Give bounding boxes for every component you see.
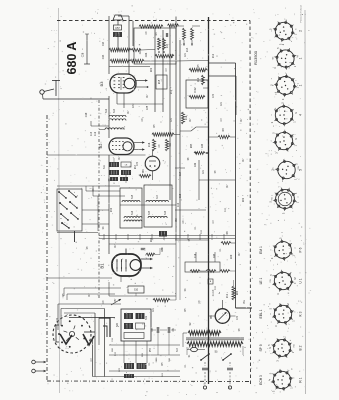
svg-text:R22: R22 xyxy=(151,67,153,72)
svg-text:B1: B1 xyxy=(100,263,105,269)
svg-text:1v: 1v xyxy=(219,291,221,294)
svg-text:C21: C21 xyxy=(221,101,223,106)
svg-text:C6: C6 xyxy=(183,220,185,224)
svg-text:R23: R23 xyxy=(237,290,239,295)
svg-text:a: a xyxy=(273,125,275,127)
svg-text:k: k xyxy=(272,167,274,169)
svg-text:765: 765 xyxy=(271,196,273,200)
svg-text:C30: C30 xyxy=(162,247,164,252)
svg-text:R19: R19 xyxy=(142,352,144,357)
svg-text:7: 7 xyxy=(284,72,288,74)
svg-text:C16: C16 xyxy=(180,193,182,198)
svg-text:s: s xyxy=(271,77,273,79)
svg-text:S19: S19 xyxy=(146,315,148,320)
svg-text:C21: C21 xyxy=(185,52,187,57)
svg-text:C3: C3 xyxy=(213,220,215,224)
svg-text:P57: P57 xyxy=(150,347,152,352)
svg-text:ECH 3: ECH 3 xyxy=(259,375,263,385)
svg-text:f: f xyxy=(271,140,273,141)
svg-text:1: 1 xyxy=(293,144,297,146)
svg-text:~: ~ xyxy=(216,391,218,395)
svg-text:3: 3 xyxy=(282,212,286,214)
svg-text:5: 5 xyxy=(268,28,272,30)
svg-text:C12: C12 xyxy=(95,131,97,136)
svg-text:C22: C22 xyxy=(112,337,114,342)
svg-text:1g: 1g xyxy=(269,378,271,381)
svg-text:LE 1: LE 1 xyxy=(259,277,263,284)
svg-text:C3: C3 xyxy=(166,68,168,72)
svg-text:R5: R5 xyxy=(154,124,156,128)
svg-text:1: 1 xyxy=(293,178,297,180)
svg-text:LS: LS xyxy=(125,165,128,167)
svg-text:5: 5 xyxy=(276,47,280,49)
svg-text:3: 3 xyxy=(276,293,280,295)
svg-text:s: s xyxy=(271,30,273,31)
svg-text:R7: R7 xyxy=(241,118,243,122)
svg-text:500: 500 xyxy=(169,357,171,361)
svg-text:600: 600 xyxy=(112,347,114,351)
svg-text:EM 1: EM 1 xyxy=(259,246,263,254)
svg-text:R15: R15 xyxy=(159,79,161,84)
svg-text:R5: R5 xyxy=(185,308,187,312)
svg-text:R4: R4 xyxy=(155,32,158,36)
svg-text:S12: S12 xyxy=(106,108,108,113)
svg-text:s: s xyxy=(271,114,273,115)
svg-text:C1: C1 xyxy=(195,226,197,230)
svg-text:a: a xyxy=(294,247,296,249)
svg-text:S13: S13 xyxy=(114,108,116,113)
svg-text:C21: C21 xyxy=(171,117,173,122)
svg-text:3: 3 xyxy=(274,325,278,327)
svg-text:R5: R5 xyxy=(198,64,200,68)
svg-text:1: 1 xyxy=(271,352,273,354)
svg-text:S18: S18 xyxy=(132,194,134,199)
svg-text:S17: S17 xyxy=(157,194,159,199)
svg-text:f: f xyxy=(294,377,296,378)
svg-text:R7: R7 xyxy=(239,252,241,256)
svg-text:3: 3 xyxy=(281,98,285,100)
svg-text:R9: R9 xyxy=(222,128,225,132)
svg-text:s: s xyxy=(277,370,279,372)
svg-text:f: f xyxy=(295,311,297,312)
svg-text:k: k xyxy=(275,91,277,93)
svg-text:C28: C28 xyxy=(82,52,85,57)
svg-text:SP 9: SP 9 xyxy=(259,344,263,351)
svg-text:R7: R7 xyxy=(119,156,121,160)
svg-text:3: 3 xyxy=(272,390,276,392)
svg-text:C30: C30 xyxy=(57,317,59,322)
svg-text:S4: S4 xyxy=(103,226,105,230)
svg-text:C57: C57 xyxy=(115,27,120,30)
svg-text:S4: S4 xyxy=(185,288,187,292)
svg-text:3: 3 xyxy=(270,121,274,123)
svg-text:C21: C21 xyxy=(153,307,155,312)
svg-text:B9: B9 xyxy=(209,315,213,319)
svg-text:C13: C13 xyxy=(91,131,93,136)
svg-text:C30: C30 xyxy=(137,161,139,166)
svg-text:5: 5 xyxy=(268,372,272,374)
svg-text:R7: R7 xyxy=(89,293,91,297)
svg-text:S8: S8 xyxy=(239,328,241,332)
svg-text:C6: C6 xyxy=(103,300,105,304)
svg-text:a: a xyxy=(291,40,293,42)
svg-text:U 1: U 1 xyxy=(299,278,303,283)
svg-text:2: 2 xyxy=(281,43,285,45)
svg-text:R5: R5 xyxy=(162,362,164,366)
svg-text:Printed in Holland: Printed in Holland xyxy=(300,5,303,23)
svg-text:1: 1 xyxy=(299,57,303,59)
svg-text:765: 765 xyxy=(273,56,275,60)
svg-text:7: 7 xyxy=(278,186,282,188)
svg-text:R22: R22 xyxy=(243,197,245,202)
svg-text:1: 1 xyxy=(291,320,295,322)
svg-text:C3: C3 xyxy=(221,118,223,122)
svg-text:R12: R12 xyxy=(111,207,113,212)
svg-text:765: 765 xyxy=(293,343,295,347)
svg-text:C1: C1 xyxy=(220,248,222,252)
svg-text:2000: 2000 xyxy=(156,357,158,362)
svg-text:R41: R41 xyxy=(171,53,174,58)
svg-text:C42: C42 xyxy=(195,162,197,167)
svg-text:K 3: K 3 xyxy=(299,311,303,316)
svg-text:B: B xyxy=(210,281,212,283)
svg-text:S11: S11 xyxy=(104,164,106,169)
svg-text:R7: R7 xyxy=(128,110,130,114)
svg-text:5: 5 xyxy=(272,132,276,134)
svg-text:R7: R7 xyxy=(115,244,117,248)
svg-text:f: f xyxy=(292,37,294,38)
svg-text:R12: R12 xyxy=(227,293,229,298)
svg-text:C10: C10 xyxy=(178,202,180,207)
svg-text:7: 7 xyxy=(292,133,296,135)
svg-text:a: a xyxy=(297,196,299,198)
svg-text:3: 3 xyxy=(273,67,277,69)
svg-text:C11: C11 xyxy=(215,285,217,290)
svg-text:S10: S10 xyxy=(134,290,139,292)
svg-text:S2: S2 xyxy=(189,322,192,326)
svg-text:R 1: R 1 xyxy=(299,377,303,382)
svg-text:5: 5 xyxy=(294,163,298,165)
svg-text:3: 3 xyxy=(275,360,279,362)
svg-text:B2: B2 xyxy=(98,143,103,149)
svg-text:P 6: P 6 xyxy=(299,247,303,252)
svg-text:C24: C24 xyxy=(145,52,148,57)
svg-text:R14: R14 xyxy=(166,43,169,48)
svg-text:S17: S17 xyxy=(177,347,179,352)
svg-text:R18: R18 xyxy=(148,142,151,147)
svg-text:B 2: B 2 xyxy=(299,345,303,350)
svg-text:C21: C21 xyxy=(203,169,205,174)
svg-text:5: 5 xyxy=(278,237,282,239)
svg-text:C30: C30 xyxy=(237,315,239,320)
svg-text:s: s xyxy=(298,178,300,180)
svg-text:1g: 1g xyxy=(296,111,298,114)
svg-text:5: 5 xyxy=(267,344,271,346)
svg-text:7: 7 xyxy=(289,323,291,325)
svg-text:R7: R7 xyxy=(243,158,245,162)
svg-text:R14: R14 xyxy=(186,47,189,52)
svg-text:F34: F34 xyxy=(102,41,105,46)
svg-text:7: 7 xyxy=(283,335,287,337)
svg-text:f: f xyxy=(270,249,272,250)
svg-text:C30: C30 xyxy=(213,93,215,98)
svg-text:S21: S21 xyxy=(162,372,164,377)
svg-text:765: 765 xyxy=(298,165,300,169)
svg-text:C11: C11 xyxy=(201,229,203,234)
svg-text:1: 1 xyxy=(293,65,297,67)
svg-text:S8: S8 xyxy=(215,170,217,174)
svg-text:C1: C1 xyxy=(185,364,187,368)
svg-text:680 A: 680 A xyxy=(65,42,79,75)
svg-text:1: 1 xyxy=(291,351,295,353)
svg-text:C6: C6 xyxy=(159,144,161,148)
svg-text:C32: C32 xyxy=(193,87,197,93)
svg-text:S16: S16 xyxy=(165,210,167,215)
svg-text:7: 7 xyxy=(286,369,290,371)
svg-text:1: 1 xyxy=(295,201,299,203)
svg-text:C6: C6 xyxy=(146,31,148,35)
svg-text:S15: S15 xyxy=(149,210,151,215)
svg-text:1: 1 xyxy=(294,33,298,35)
svg-text:R13500: R13500 xyxy=(253,50,258,65)
svg-text:s: s xyxy=(272,194,274,196)
svg-text:4: 4 xyxy=(294,276,296,278)
svg-text:C17: C17 xyxy=(180,171,182,176)
svg-text:S1: S1 xyxy=(189,354,191,358)
svg-text:g: g xyxy=(291,368,293,370)
svg-text:7hv: 7hv xyxy=(244,299,246,304)
svg-text:3: 3 xyxy=(270,257,274,259)
svg-text:C43: C43 xyxy=(202,143,204,148)
svg-text:C1: C1 xyxy=(149,362,151,366)
svg-text:k: k xyxy=(296,28,298,30)
svg-text:C11: C11 xyxy=(115,351,117,356)
svg-text:C34: C34 xyxy=(102,54,105,59)
svg-text:a: a xyxy=(298,82,300,84)
svg-text:S6: S6 xyxy=(188,157,190,161)
svg-text:5: 5 xyxy=(269,307,273,309)
svg-text:S: S xyxy=(113,183,115,185)
svg-text:C9: C9 xyxy=(151,328,154,332)
svg-text:R7: R7 xyxy=(190,118,192,122)
svg-text:R12: R12 xyxy=(213,53,215,58)
svg-text:765: 765 xyxy=(270,278,272,282)
svg-text:EBL 1: EBL 1 xyxy=(259,309,263,318)
svg-text:R7: R7 xyxy=(147,94,149,98)
svg-text:C35: C35 xyxy=(147,105,149,110)
svg-text:f: f xyxy=(275,151,277,152)
svg-text:2: 2 xyxy=(299,30,303,32)
svg-text:R16: R16 xyxy=(185,115,188,120)
svg-text:7: 7 xyxy=(286,302,290,304)
svg-text:7: 7 xyxy=(289,271,293,273)
svg-text:1g: 1g xyxy=(296,137,298,140)
svg-text:k: k xyxy=(275,107,277,109)
svg-text:4: 4 xyxy=(299,114,303,116)
svg-text:1: 1 xyxy=(294,192,298,194)
svg-text:5: 5 xyxy=(281,102,285,104)
svg-text:7: 7 xyxy=(284,18,288,20)
svg-text:B7: B7 xyxy=(115,298,117,302)
svg-text:C19: C19 xyxy=(85,112,88,117)
svg-text:a: a xyxy=(270,313,272,315)
svg-text:S8: S8 xyxy=(87,246,89,250)
svg-text:1: 1 xyxy=(290,387,294,389)
svg-text:B6: B6 xyxy=(141,169,145,173)
svg-text:R6: R6 xyxy=(226,231,229,235)
svg-text:1: 1 xyxy=(269,286,271,288)
svg-text:S22: S22 xyxy=(119,367,121,372)
svg-text:1: 1 xyxy=(292,121,296,123)
svg-text:C6: C6 xyxy=(142,118,144,122)
svg-text:R20: R20 xyxy=(230,254,233,259)
svg-text:S14: S14 xyxy=(132,210,134,215)
